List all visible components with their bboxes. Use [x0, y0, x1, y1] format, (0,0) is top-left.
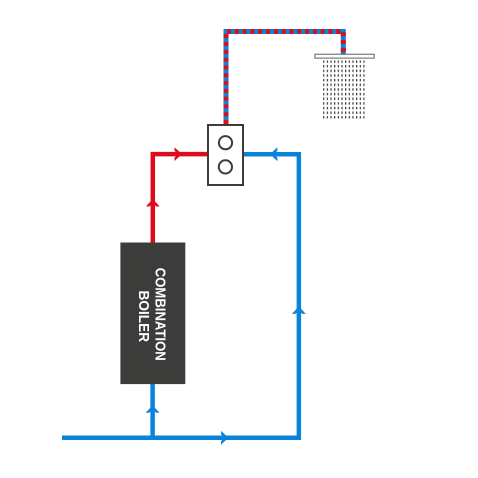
arrow: flow up on right riser (blue): [292, 306, 306, 314]
wire: mixed water pipe valve to shower head (red dashes): [226, 32, 343, 125]
arrow: flow right on bottom run (blue): [221, 431, 229, 445]
arrow: flow left into valve (blue): [270, 147, 278, 161]
shower spray dots: [323, 60, 365, 118]
wire: mixed water pipe valve to shower head (blue base): [226, 32, 343, 125]
wire: cold mains bottom run + right riser to valve (blue): [62, 154, 299, 438]
boiler (combination boiler body): [120, 243, 185, 385]
valve control upper circle: [219, 136, 232, 149]
valve: shower mixer valve body: [208, 125, 243, 185]
shower head bar: [315, 54, 374, 58]
valve control lower circle: [219, 160, 232, 173]
arrow: flow up on red pipe: [146, 199, 160, 207]
wire: hot outlet from boiler to valve (red): [153, 154, 207, 243]
arrow: flow right on red pipe: [175, 147, 183, 161]
wire: cold feed into boiler (blue): [150, 384, 155, 440]
arrow: flow up into boiler (blue): [146, 405, 160, 413]
